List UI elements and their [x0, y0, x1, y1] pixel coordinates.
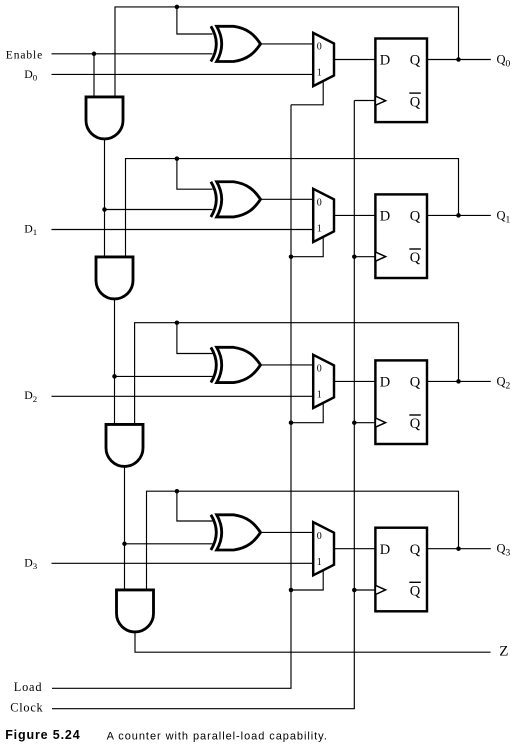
svg-text:Clock: Clock: [10, 701, 43, 715]
wire: FF2 Q output to Q2: [427, 380, 491, 382]
mux M3: [313, 522, 334, 575]
wire: D0 input to mux 0 input 1: [52, 73, 314, 75]
node: Enable / AND0 junction: [92, 52, 97, 57]
node: Q3 output junction: [456, 546, 461, 551]
wire: mux 3 select down to Load line: [291, 570, 323, 590]
wire: D2 input to mux 2 input 1: [52, 395, 314, 397]
wire: AND3 output down and right to Z output: [135, 632, 491, 652]
svg-text:D: D: [380, 209, 390, 225]
wire: AND2 output down to AND3 input 1: [124, 466, 126, 590]
svg-text:Q: Q: [410, 584, 421, 600]
wire: XOR 3 output to mux 3 input 0: [261, 531, 314, 533]
node: AND1 output / XOR 2 junction: [112, 374, 117, 379]
svg-text:Enable: Enable: [6, 49, 43, 61]
svg-text:A counter with parallel-load c: A counter with parallel-load capability.: [107, 730, 328, 742]
wire: XOR 2 output to mux 2 input 0: [261, 364, 314, 366]
wire: feedback to XOR 1 upper input: [177, 159, 213, 190]
wire: feedback to XOR 0 upper input: [177, 7, 213, 34]
wire: mux 1 select down to Load line: [291, 237, 323, 257]
node: AND0 output / XOR 1 junction: [102, 207, 107, 212]
wire: AND0 output down to AND1 input 1: [104, 139, 106, 257]
svg-text:Q: Q: [410, 542, 421, 558]
wire: Clock input line up to flip-flops: [52, 101, 354, 709]
wire: mux 1 output to FF1 D input: [334, 214, 375, 216]
svg-text:Q: Q: [410, 209, 421, 225]
svg-text:D: D: [380, 53, 390, 69]
node: feedback junction stage 1: [175, 156, 180, 161]
svg-text:1: 1: [317, 224, 322, 235]
node: feedback junction stage 0: [175, 5, 180, 9]
wire: AND1 output to XOR 2 lower input: [115, 375, 213, 377]
svg-text:Figure 5.24: Figure 5.24: [5, 728, 80, 742]
flip-flop FF3: [375, 528, 427, 612]
wire: D1 input to mux 1 input 1: [52, 229, 314, 231]
svg-text:Q: Q: [410, 94, 421, 110]
wire: Enable input to XOR 0 lower input: [52, 53, 213, 55]
node: Q2 output junction: [456, 379, 461, 384]
wire: mux 0 output to FF0 D input: [334, 59, 375, 61]
svg-text:D: D: [380, 542, 390, 558]
wire: XOR 1 output to mux 1 input 0: [261, 198, 314, 200]
wire: mux 2 select down to Load line: [291, 403, 323, 423]
and-gate A1: [96, 257, 133, 299]
xor-gate X3: [211, 515, 261, 550]
wire: Q0 feedback loop (Q up and over to AND/XOR): [115, 7, 459, 97]
flip-flop FF0: [375, 39, 427, 123]
node: Load junction stage 1: [289, 254, 294, 259]
and-gate A3: [117, 590, 154, 632]
svg-text:Q: Q: [410, 53, 421, 69]
wire: XOR 0 output to mux 0 input 0: [261, 43, 314, 45]
mux M1: [313, 189, 334, 242]
wire: FF1 Q output to Q1: [427, 214, 491, 216]
node: feedback junction stage 2: [175, 320, 180, 325]
wire: Clock to FF3 clock input: [354, 589, 375, 591]
svg-text:1: 1: [317, 557, 322, 568]
node: Load junction stage 3: [289, 588, 294, 593]
svg-text:1: 1: [317, 68, 322, 79]
wire: Q1 feedback loop (Q up and over to AND/XOR): [126, 159, 459, 257]
svg-text:Q: Q: [410, 250, 421, 266]
flip-flop FF2: [375, 360, 427, 444]
flip-flop FF1: [375, 194, 427, 278]
wire: D3 input to mux 3 input 1: [52, 562, 314, 564]
svg-text:Z: Z: [499, 643, 508, 659]
node: Clock junction stage 1: [352, 254, 357, 259]
wire: Clock to FF0 clock input: [354, 100, 375, 102]
node: feedback junction stage 3: [175, 489, 180, 494]
node: Load junction stage 2: [289, 420, 294, 425]
wire: Q2 feedback loop (Q up and over to AND/XOR): [135, 323, 459, 425]
xor-gate X1: [211, 182, 261, 217]
wire: feedback to XOR 2 upper input: [177, 323, 213, 354]
mux M0: [313, 33, 334, 86]
svg-text:0: 0: [317, 364, 322, 375]
wire: Clock to FF1 clock input: [354, 256, 375, 258]
node: Clock junction stage 2: [352, 420, 357, 425]
node: Clock junction stage 3: [352, 588, 357, 593]
svg-text:D: D: [380, 375, 390, 391]
wire: mux 0 select down to Load line: [291, 81, 323, 105]
wire: AND0 output to XOR 1 lower input: [105, 209, 213, 211]
wire: AND1 output down to AND2 input 1: [114, 299, 116, 425]
wire: Clock to FF2 clock input: [354, 422, 375, 424]
svg-text:Q: Q: [410, 416, 421, 432]
svg-text:0: 0: [317, 531, 322, 542]
and-gate A2: [106, 424, 143, 466]
wire: feedback to XOR 3 upper input: [177, 491, 213, 521]
wire: Q3 feedback loop (Q up and over to AND/XOR): [147, 491, 459, 590]
svg-text:Load: Load: [14, 680, 42, 694]
wire: FF3 Q output to Q3: [427, 548, 491, 550]
wire: Enable down to AND0 input 1: [93, 54, 95, 97]
svg-text:Q: Q: [410, 375, 421, 391]
mux M2: [313, 355, 334, 408]
node: Q1 output junction: [456, 213, 461, 218]
node: AND2 output / XOR 3 junction: [122, 542, 127, 547]
xor-gate X0: [211, 26, 261, 61]
svg-text:1: 1: [317, 390, 322, 401]
wire: Load input line up to mux selects: [52, 105, 291, 689]
wire: mux 2 output to FF2 D input: [334, 380, 375, 382]
wire: FF0 Q output to Q0: [427, 59, 491, 61]
wire: mux 3 output to FF3 D input: [334, 548, 375, 550]
and-gate A0: [86, 97, 123, 139]
wire: AND2 output to XOR 3 lower input: [125, 543, 213, 545]
svg-text:0: 0: [317, 42, 322, 53]
xor-gate X2: [211, 347, 261, 382]
node: Q0 output junction: [456, 57, 461, 62]
svg-text:0: 0: [317, 198, 322, 209]
